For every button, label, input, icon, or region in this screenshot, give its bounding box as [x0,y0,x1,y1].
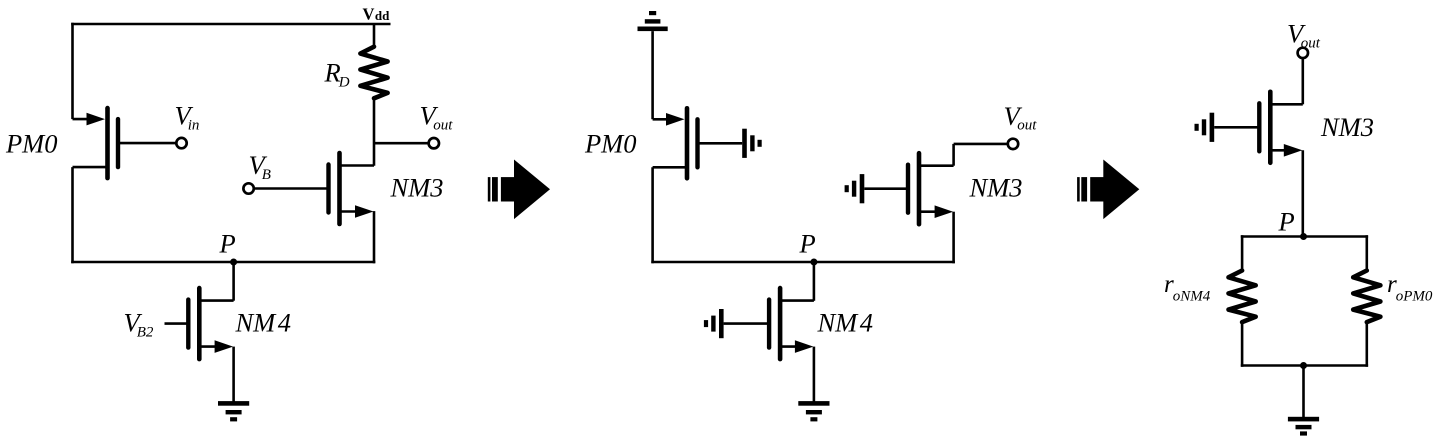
node P junction dot (left circuit) [230,259,237,266]
svg-text:P: P [219,229,236,259]
wire node P to NM4 drain (middle) [813,262,816,301]
transistor PM0 (middle circuit) [653,108,743,178]
terminal VB [243,183,253,193]
ac ground at NM4 gate (middle) [704,309,724,338]
svg-text:P: P [1278,207,1295,237]
wire node P rail (left circuit) [71,261,375,264]
wire parallel top rail (right) [1241,235,1368,238]
svg-text:NM4: NM4 [817,308,874,338]
wire Vout horizontal (middle) [954,143,1009,146]
svg-text:NM3: NM3 [1320,112,1374,142]
wire PM0 drain to node P rail [71,167,74,263]
wire NM4 source to ground (middle) [813,347,816,403]
wire node P to NM4 drain [232,262,235,301]
wire top ground to PM0 source [651,31,654,119]
transistor PM0 (left circuit) [73,108,177,178]
wire PM0 drain to node P rail (middle) [651,167,654,263]
ground below NM4 (left circuit) [218,401,249,421]
node P junction dot (right circuit) [1300,233,1307,240]
ac ground at NM3 gate (right) [1195,113,1215,142]
wire NM3 source to node P rail (middle) [952,212,955,264]
ac ground at NM3 gate (middle) [845,174,865,203]
node P junction dot (middle circuit) [810,259,817,266]
svg-text:NM3: NM3 [390,173,444,203]
wire roNM4 to bottom rail [1241,322,1244,367]
svg-text:NM3: NM3 [969,173,1023,203]
svg-text:VB2: VB2 [124,308,154,341]
transistor NM3 (middle circuit) [864,153,953,224]
resistor roNM4 [1229,271,1256,323]
block arrow 2 (middle to right) [1077,160,1139,220]
terminal Vin [176,138,186,148]
svg-text:NM4: NM4 [235,308,292,338]
svg-text:Vin: Vin [175,101,200,134]
svg-text:P: P [799,229,816,259]
wire Vout to NM3 drain (right) [1302,58,1305,105]
transistor NM3 (left circuit) [254,153,374,224]
ground at bottom (right circuit) [1288,417,1319,436]
block arrow 1 (left to middle) [488,160,550,220]
wire NM4 source to ground [232,347,235,403]
power rail Vdd (left circuit) [71,23,390,26]
wire parallel bottom rail (right) [1241,364,1368,367]
wire Vdd rail to PM0 source [71,23,74,119]
transistor NM4 (middle circuit) [724,288,814,359]
wire roPM0 to bottom rail [1366,322,1369,367]
wire top rail to roPM0 [1366,235,1369,271]
terminal Vout (middle circuit) [1008,139,1018,149]
svg-text:RD: RD [324,58,350,91]
svg-text:Vout: Vout [1287,19,1321,52]
svg-text:roNM4: roNM4 [1164,271,1211,305]
transistor NM4 (left circuit) [165,288,234,359]
svg-text:PM0: PM0 [5,128,58,158]
svg-text:PM0: PM0 [584,129,637,159]
resistor roPM0 [1353,271,1380,323]
ac ground at top (middle circuit) [638,11,668,31]
wire top rail to roNM4 [1241,235,1244,271]
junction dot bottom rail (right) [1300,362,1307,369]
wire NM3 source to node P (right) [1302,150,1305,238]
resistor RD [360,47,387,99]
wire NM3 source to node P rail [373,211,376,263]
svg-text:Vout: Vout [420,101,454,134]
svg-text:Vout: Vout [1004,101,1038,134]
wire NM3 drain to Vout corner (middle) [952,144,955,166]
wire Vdd rail to RD [373,24,376,47]
wire node P rail (middle circuit) [651,261,955,264]
transistor NM3 (right circuit) [1214,92,1303,163]
wire Vout tap (left circuit) [374,142,429,145]
svg-text:Vdd: Vdd [363,4,391,23]
terminal Vout (left circuit) [429,138,439,148]
ac ground at PM0 gate [742,129,762,158]
svg-text:VB: VB [249,150,271,183]
terminal Vout (right circuit) [1298,48,1308,58]
wire RD to NM3 drain [373,98,376,166]
wire bottom rail to ground (right) [1302,366,1305,419]
ground below NM4 (middle circuit) [798,401,829,421]
svg-text:roPM0: roPM0 [1387,271,1433,305]
